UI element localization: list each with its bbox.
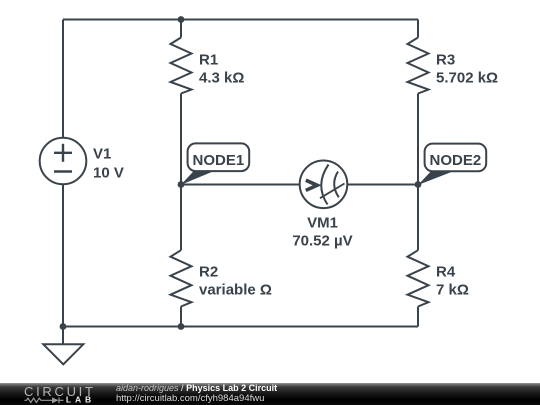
svg-text:variable Ω: variable Ω xyxy=(199,282,272,299)
svg-text:LAB: LAB xyxy=(66,395,95,405)
resistor R2 xyxy=(171,250,192,306)
wire xyxy=(180,185,182,251)
svg-text:70.52 µV: 70.52 µV xyxy=(292,233,352,250)
svg-text:7 kΩ: 7 kΩ xyxy=(436,282,469,299)
wire xyxy=(62,327,64,345)
junction xyxy=(60,323,67,330)
wire xyxy=(348,184,419,186)
svg-text:10 V: 10 V xyxy=(93,164,124,181)
node NODE1 xyxy=(181,143,249,184)
voltage source V1 xyxy=(40,138,87,185)
wire xyxy=(417,307,419,327)
svg-text:NODE2: NODE2 xyxy=(430,152,482,169)
CircuitLab logo xyxy=(0,383,540,405)
svg-text:R1: R1 xyxy=(199,52,218,69)
resistor R4 xyxy=(408,250,429,306)
voltmeter VM1 xyxy=(300,161,348,209)
svg-text:5.702 kΩ: 5.702 kΩ xyxy=(436,69,498,86)
wire xyxy=(62,184,64,326)
junction xyxy=(178,16,185,23)
junction xyxy=(415,181,422,188)
footer watermark bar xyxy=(0,383,540,405)
svg-text:R4: R4 xyxy=(436,264,456,281)
wire xyxy=(180,20,182,38)
wire xyxy=(63,19,418,21)
wire xyxy=(180,307,182,327)
svg-text:4.3 kΩ: 4.3 kΩ xyxy=(199,69,244,86)
svg-text:VM1: VM1 xyxy=(307,215,338,232)
wire xyxy=(63,326,418,328)
node NODE2 xyxy=(418,144,486,185)
junction xyxy=(178,323,185,330)
resistor R1 xyxy=(171,38,192,94)
wire xyxy=(62,20,64,139)
svg-text:R2: R2 xyxy=(199,264,218,281)
svg-text:NODE1: NODE1 xyxy=(193,152,245,169)
wire xyxy=(417,94,419,185)
junction xyxy=(178,181,185,188)
svg-text:R3: R3 xyxy=(436,52,455,69)
svg-text:V1: V1 xyxy=(93,146,111,163)
wire xyxy=(417,185,419,251)
resistor R3 xyxy=(408,38,429,94)
wire xyxy=(180,94,182,185)
footer attribution text xyxy=(116,384,277,393)
ground xyxy=(43,344,83,364)
wire xyxy=(417,20,419,38)
wire xyxy=(181,184,300,186)
